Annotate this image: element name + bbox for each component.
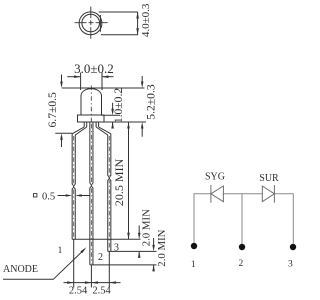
pin 3 lower extension line bbox=[108, 251, 110, 287]
dim 1.0 arrowheads bbox=[111, 109, 114, 129]
dim 6.7 bottom reference line bbox=[55, 132, 72, 134]
svg-text:2.0 MIN: 2.0 MIN bbox=[156, 229, 168, 266]
dim 20.5 arrowheads bbox=[127, 122, 130, 239]
leg 1 diagonal bbox=[72, 127, 84, 134]
dim 4.0 arrowheads bbox=[136, 12, 139, 35]
dimension line 3.0 right tail bbox=[102, 76, 113, 78]
wire middle drop bbox=[241, 194, 243, 244]
LED body left side bbox=[80, 95, 82, 115]
lead square section symbol bbox=[34, 194, 37, 197]
ANODE leader arrowhead bbox=[80, 247, 86, 253]
leg 2 break symbol bbox=[89, 183, 95, 188]
leg 1 (left) stub below flange bbox=[83, 122, 85, 127]
svg-text:3: 3 bbox=[114, 243, 119, 254]
top view vertical centerline bbox=[90, 7, 92, 39]
dome top extension line bbox=[62, 87, 145, 89]
dim 2.0 second arrowheads bbox=[152, 245, 155, 272]
top view horizontal centerline bbox=[75, 22, 108, 24]
dim 2.0 second line bottom bbox=[153, 265, 155, 271]
svg-text:3: 3 bbox=[288, 260, 293, 270]
dimension line 3.0 left tail bbox=[67, 76, 80, 78]
svg-text:2: 2 bbox=[239, 259, 244, 269]
dim 3.0 arrowheads bbox=[74, 75, 108, 78]
pin 2 tip reference line bbox=[90, 264, 157, 266]
svg-text:20.5 MIN: 20.5 MIN bbox=[112, 159, 126, 207]
leg 1 break symbol bbox=[71, 184, 77, 189]
ANODE leader line bbox=[3, 249, 85, 279]
dim 6.7 arrowheads bbox=[60, 82, 63, 140]
svg-text:1: 1 bbox=[58, 246, 63, 256]
dim 0.5 left tail bbox=[58, 195, 67, 197]
dim 5.2 arrowheads bbox=[141, 82, 144, 129]
leg 3 diagonal bbox=[99, 127, 111, 134]
leg 2 (middle) vertical body bbox=[89, 122, 91, 265]
svg-text:2: 2 bbox=[98, 252, 103, 263]
extension line bottom tangent for dim 4.0 bbox=[101, 34, 138, 36]
dim 20.5 line bbox=[128, 122, 130, 239]
dim 0.5 arrowheads bbox=[66, 194, 82, 197]
leg 3 vertical body bbox=[107, 135, 109, 251]
LED top view flange flat chord bbox=[99, 15, 101, 32]
extension line 3.0 right bbox=[101, 73, 103, 91]
wire top left segment bbox=[194, 194, 211, 243]
wire top right segment bbox=[274, 194, 293, 244]
flange bottom right extension line bbox=[104, 121, 146, 123]
pin 1 lower extension line bbox=[73, 239, 75, 287]
LED top view epoxy body inner circle bbox=[82, 14, 100, 32]
LED legs bbox=[72, 122, 111, 265]
pin 2 lower extension line bbox=[90, 265, 92, 288]
wire between diodes bbox=[223, 193, 262, 195]
svg-text:1.0±0.2: 1.0±0.2 bbox=[112, 88, 125, 124]
leg 3 break symbol bbox=[107, 175, 113, 180]
LED dome arc bbox=[81, 89, 102, 96]
svg-text:SYG: SYG bbox=[205, 172, 225, 183]
leg 3 (right) stub below flange bbox=[95, 122, 97, 127]
pin 3 tip reference line bbox=[108, 250, 157, 252]
extension line 3.0 left bbox=[80, 73, 82, 91]
dim 5.2 line top bbox=[141, 76, 143, 82]
svg-text:0.5: 0.5 bbox=[42, 191, 55, 202]
svg-text:ANODE: ANODE bbox=[3, 264, 38, 275]
pin 1 tip reference line bbox=[72, 238, 140, 240]
dim 2.0 first line bottom bbox=[138, 251, 140, 257]
svg-text:2.0 MIN: 2.0 MIN bbox=[141, 209, 153, 246]
node terminal 3 bbox=[290, 244, 296, 250]
svg-text:SUR: SUR bbox=[259, 173, 279, 184]
LED top view outer flange circle bbox=[79, 12, 102, 35]
LED body right side bbox=[101, 95, 103, 115]
LED flange outline bbox=[78, 115, 105, 122]
dim 1.0 line bottom bbox=[112, 122, 114, 129]
node terminal 2 bbox=[239, 244, 245, 250]
svg-text:2.54: 2.54 bbox=[69, 286, 88, 297]
dim 2.0 first line top bbox=[138, 226, 140, 234]
diode D1 SYG bbox=[211, 185, 224, 203]
diode D2 SUR bbox=[262, 185, 274, 203]
dim 2.54 arrowheads bbox=[67, 281, 116, 284]
dim 6.7 line bottom bbox=[61, 140, 63, 148]
dim 6.7 line top bbox=[61, 75, 63, 83]
svg-text:2.54: 2.54 bbox=[92, 286, 111, 297]
dim 2.0 first arrowheads bbox=[138, 233, 141, 258]
body vertical centerline bbox=[90, 86, 92, 123]
dim 5.2 line bottom bbox=[141, 129, 143, 137]
dimension line 2.54 bbox=[64, 282, 121, 284]
dim 2.0 second line top bbox=[153, 238, 155, 246]
node terminal 1 bbox=[191, 243, 197, 249]
leg centerlines dashed bbox=[74, 124, 110, 264]
svg-text:4.0±0.3: 4.0±0.3 bbox=[140, 3, 152, 37]
dimension line 4.0±0.3 bbox=[137, 12, 139, 35]
extension line top tangent for dim 4.0 bbox=[99, 11, 138, 13]
dim 1.0 line top bbox=[112, 103, 114, 109]
svg-text:1: 1 bbox=[191, 260, 196, 270]
dim 0.5 right tail bbox=[82, 195, 90, 197]
svg-text:6.7±0.5: 6.7±0.5 bbox=[46, 92, 59, 128]
flange top right extension line bbox=[102, 114, 121, 116]
leg 1 vertical body bbox=[71, 134, 73, 239]
svg-text:5.2±0.3: 5.2±0.3 bbox=[145, 84, 158, 120]
